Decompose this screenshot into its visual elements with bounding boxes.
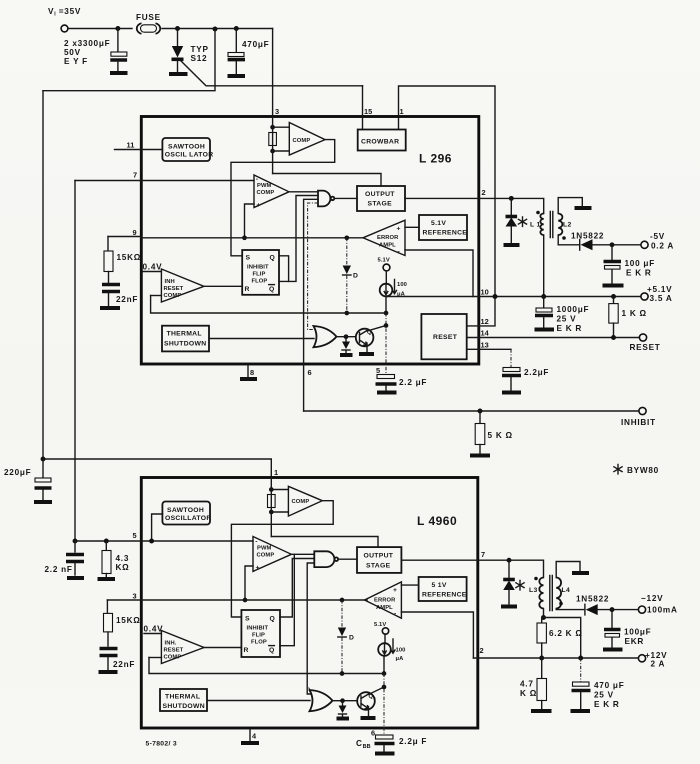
svg-text:COMP: COMP (292, 499, 310, 505)
node dot 100uF bottom (610, 607, 615, 612)
ground 4.7K (531, 709, 552, 713)
wire pin 7 to transformer (478, 560, 544, 577)
ground 22nF 4960 (99, 670, 118, 674)
node junction 470uF (234, 26, 239, 31)
ground for SCR (169, 72, 188, 76)
capacitor CB 2.2uF (376, 735, 394, 739)
node dot diode D top 4960 (340, 598, 345, 603)
wire L2 bottom to diode (558, 235, 579, 245)
svg-text:KΩ: KΩ (116, 563, 130, 572)
svg-text:S12: S12 (191, 54, 208, 63)
wire PWM plus stub to error line 4960 (245, 566, 253, 600)
node dot current source bottom 4960 (382, 671, 387, 676)
wire rail down to pin 3 (272, 29, 274, 117)
ground base diode 4960 (337, 717, 350, 721)
svg-text:BYW80: BYW80 (627, 466, 659, 475)
svg-text:3: 3 (275, 107, 279, 116)
node dot crowbar sense (493, 294, 498, 299)
svg-text:SAWTOOH: SAWTOOH (168, 144, 205, 151)
wire collector to CS line 4960 (369, 687, 385, 695)
phasing dot primary 2 (534, 577, 538, 581)
ground 2.2nF (67, 576, 84, 580)
svg-text:L 296: L 296 (419, 152, 452, 166)
thermal shutdown box 4960 (160, 689, 207, 711)
svg-text:SAWTOOH: SAWTOOH (167, 507, 204, 514)
node junction SCR (175, 26, 180, 31)
svg-text:SHUTDOWN: SHUTDOWN (163, 703, 205, 710)
svg-text:INHIBIT: INHIBIT (247, 265, 269, 271)
svg-text:OUTPUT: OUTPUT (364, 553, 394, 560)
svg-text:+: + (257, 202, 261, 209)
svg-text:Q: Q (270, 255, 276, 262)
wire pin 2 to transformer (479, 198, 544, 213)
resistor 15K ext (107, 237, 109, 252)
op-amp COMP (289, 123, 325, 156)
svg-text:FUSE: FUSE (136, 13, 161, 22)
node dot L3 bottom (541, 615, 546, 620)
inhibit flip flop box 4960 (241, 610, 280, 657)
asterisk mark 2 (516, 581, 524, 590)
svg-text:Q: Q (269, 286, 275, 293)
svg-text:L 1: L 1 (530, 222, 541, 229)
current source 100uA (385, 271, 387, 284)
svg-text:PWM: PWM (257, 183, 272, 189)
svg-text:Q: Q (269, 647, 275, 654)
svg-text:100 μF: 100 μF (625, 259, 655, 268)
svg-text:6.2 K Ω: 6.2 K Ω (549, 629, 583, 638)
svg-text:L 4960: L 4960 (417, 514, 457, 528)
wire feed left vertical to L4960 supply (43, 91, 271, 477)
wire pin 9 error amp line (108, 236, 141, 238)
wire input to fuse (68, 28, 132, 30)
svg-text:COMP: COMP (164, 293, 182, 299)
node dot collector 4960 (382, 685, 387, 690)
wire pin 13 (467, 348, 511, 350)
wire L2 top to ground (558, 198, 582, 214)
capacitor 470uF 25V EKR (580, 658, 582, 682)
svg-text:L4: L4 (562, 587, 571, 594)
wire pin3 to comp minus (273, 126, 290, 128)
wire INH comp lower input (151, 295, 162, 297)
5.1V reference box 4960 (419, 577, 467, 601)
transistor QF (357, 692, 375, 710)
svg-text:INHIBIT: INHIBIT (247, 626, 269, 632)
svg-text:AMPL: AMPL (379, 243, 396, 249)
ground base diode (340, 353, 353, 357)
svg-text:22nF: 22nF (116, 295, 138, 304)
wire thermal to OR gate 4960 (207, 700, 310, 702)
svg-text:+: + (393, 587, 397, 594)
current source 100uA 4960 (384, 634, 386, 644)
svg-text:RESET: RESET (630, 343, 661, 352)
svg-text:9: 9 (133, 228, 137, 237)
svg-text:100μF: 100μF (624, 628, 651, 637)
phasing dot secondary (562, 236, 566, 240)
capacitor 2.2nF (74, 541, 76, 552)
svg-text:470μF: 470μF (242, 40, 269, 49)
wire supply to output stage (273, 174, 381, 187)
ground freewheel diode 4960 (501, 605, 517, 609)
wire output stage to pin 2 (405, 197, 479, 199)
svg-text:STAGE: STAGE (366, 563, 391, 570)
output stage box (357, 186, 405, 211)
node dot pwm plus 4960 (243, 598, 248, 603)
node dot pin3 bottom (270, 149, 275, 154)
ground pin 4 (249, 728, 251, 741)
wire emitter to ground 4960 (368, 707, 370, 717)
resistor 1K (613, 297, 615, 304)
node junction input cap (115, 26, 120, 31)
svg-text:2.2μ F: 2.2μ F (399, 737, 427, 746)
ground L4 (572, 571, 589, 575)
OR gate (314, 326, 337, 347)
capacitor 2.2uF pin5 (377, 375, 395, 379)
svg-text:E K R: E K R (626, 269, 652, 278)
wire output stage to pin 7 (401, 559, 478, 561)
ground 100uF (603, 284, 624, 288)
NAND gate (318, 191, 330, 207)
svg-text:1: 1 (400, 107, 404, 116)
asterisk mark (518, 217, 526, 226)
node dot diode D top (344, 235, 349, 240)
wire L3 node to +12V line (544, 618, 581, 659)
resistor R osc 4960 (268, 495, 276, 508)
svg-text:μA: μA (396, 656, 405, 662)
output terminal -5V (641, 241, 648, 248)
svg-text:RESET: RESET (164, 648, 184, 654)
wire pin 15 up from IC (362, 86, 364, 117)
capacitor 22nF ext 4960 (107, 632, 109, 646)
op-amp PWM COMP 4960 (253, 537, 291, 572)
wire internal bottom line (151, 296, 386, 314)
svg-text:R: R (245, 286, 250, 293)
svg-text:15KΩ: 15KΩ (117, 253, 142, 262)
svg-text:5 K Ω: 5 K Ω (488, 431, 513, 440)
op-amp INH RESET COMP 4960 (161, 631, 204, 664)
ground 470uF (571, 709, 591, 713)
svg-text:11: 11 (127, 141, 135, 150)
svg-text:FLIP: FLIP (253, 272, 266, 278)
wire pin 14 reset line (467, 337, 639, 339)
wire pin3 to comp plus (273, 150, 290, 152)
svg-text:−12V: −12V (641, 594, 663, 603)
SCR gate wire to pin 15 line (181, 61, 363, 86)
node junction feed branch (213, 27, 218, 32)
svg-text:5.1V: 5.1V (378, 258, 390, 264)
wire error minus to pin 2 (401, 612, 473, 658)
wire comp output loop (231, 140, 335, 256)
svg-text:+: + (397, 226, 401, 233)
op-amp PWM COMP (254, 175, 289, 208)
svg-text:5: 5 (133, 531, 137, 540)
output terminal -12V (638, 606, 645, 613)
svg-text:COMP: COMP (164, 655, 182, 661)
svg-text:100mA: 100mA (647, 606, 678, 615)
op-amp INH RESET COMP (161, 269, 204, 302)
wire fuse to rail (162, 28, 273, 30)
wire NAND in4 dashdot to OR gate (308, 203, 318, 330)
RESET box (421, 314, 466, 359)
wire +12V line (473, 657, 638, 659)
svg-text:7: 7 (133, 171, 137, 180)
wire pin 10 +5.1V line (386, 296, 641, 298)
svg-text:FLOP: FLOP (252, 279, 268, 285)
op-amp ERROR AMPL (363, 220, 405, 255)
svg-text:+: + (256, 565, 260, 572)
svg-text:D: D (353, 273, 358, 280)
svg-text:RESET: RESET (433, 334, 458, 341)
svg-text:470 μF: 470 μF (594, 681, 624, 690)
node dot diode D bottom 4960 (340, 671, 345, 676)
node dot collector (384, 323, 389, 328)
svg-text:0.4V: 0.4V (143, 263, 163, 272)
wire FF Qbar up to gate input line (280, 554, 294, 645)
ground pin 8 (247, 364, 249, 377)
SECTION_MIDDLE (4, 364, 659, 502)
wire pin7 external vertical to 2.2nF node (74, 181, 76, 542)
node dot freewheel diode (509, 196, 514, 201)
capacitor 1000uF 25V EKR (543, 297, 545, 308)
phasing dot secondary 2 (559, 602, 563, 606)
svg-text:2 x3300μF: 2 x3300μF (64, 39, 110, 48)
node dot freewheel diode 4960 (507, 558, 512, 563)
IC L296 box (141, 117, 479, 365)
node dot 6.2K bottom (539, 656, 544, 661)
transformer core 2 (550, 576, 553, 611)
svg-text:THERMAL: THERMAL (165, 694, 200, 701)
crowbar box (358, 130, 406, 151)
svg-text:6: 6 (308, 368, 312, 377)
ground 22nF (100, 306, 120, 310)
svg-text:OSCIL LATOR: OSCIL LATOR (165, 152, 214, 159)
svg-text:CROWBAR: CROWBAR (361, 139, 399, 146)
svg-text:100: 100 (397, 282, 407, 288)
transformer core (550, 212, 553, 238)
wire collector to CS line (367, 326, 386, 332)
node dot 220uF (41, 457, 46, 462)
wire NAND in2 from FF Qbar (279, 196, 318, 282)
node dot 470uF (578, 656, 583, 661)
node dot base diode (344, 334, 349, 339)
svg-text:S: S (245, 616, 250, 623)
svg-text:L3: L3 (529, 587, 538, 594)
wire supply to output stage 4960 (271, 537, 378, 548)
ground for 2x3300uF (110, 71, 128, 75)
svg-text:ERROR: ERROR (377, 235, 399, 241)
freewheel diode BYW80 (510, 198, 512, 215)
wire comp output loop 4960 (231, 501, 333, 617)
svg-text:E Y F: E Y F (64, 57, 88, 66)
freewheel diode BYW80 2 (508, 560, 510, 578)
svg-text:INH.: INH. (165, 641, 177, 647)
svg-text:5: 5 (376, 366, 380, 375)
wire pin13 down to 2.2uF (510, 349, 512, 367)
svg-text:COMP: COMP (293, 138, 311, 144)
diode D internal (346, 238, 348, 265)
wire pin 5 line to PWM minus (75, 540, 253, 542)
BYW80 note (614, 465, 622, 474)
svg-text:100: 100 (396, 648, 406, 654)
svg-text:220μF: 220μF (4, 468, 31, 477)
capacitor 470uF (235, 29, 237, 53)
node dot pin1 bottom (269, 510, 274, 515)
svg-text:Q: Q (270, 616, 276, 623)
svg-text:25 V: 25 V (557, 315, 577, 324)
svg-text:6: 6 (371, 729, 375, 738)
wire L3 bottom node (543, 609, 545, 618)
wire pin6 to inhibit line (303, 364, 305, 411)
svg-text:22nF: 22nF (113, 660, 135, 669)
resistor 5K (479, 411, 481, 424)
wire pin 1 crowbar sense to +5.1V (399, 86, 496, 297)
node dot L1 junction (541, 294, 546, 299)
svg-text:2 A: 2 A (651, 660, 666, 669)
svg-text:2.2μF: 2.2μF (524, 368, 549, 377)
inhibit terminal (639, 407, 646, 414)
wire error minus to pin 10 (405, 250, 473, 297)
svg-text:1 K Ω: 1 K Ω (622, 309, 647, 318)
node dot pin1 top (269, 487, 274, 492)
svg-text:8: 8 (250, 368, 254, 377)
node dot pin3 top (270, 125, 275, 130)
svg-text:OUTPUT: OUTPUT (365, 191, 395, 198)
svg-text:2: 2 (480, 646, 484, 655)
svg-text:REFERENCE: REFERENCE (422, 592, 467, 599)
capacitor 100uF EKR (611, 245, 613, 260)
wire PWM plus stub down to error line (245, 204, 255, 238)
ground CB (375, 752, 395, 756)
svg-text:3: 3 (133, 592, 137, 601)
svg-text:EKR: EKR (625, 637, 645, 646)
svg-text:7: 7 (481, 550, 485, 559)
capacitor 22nF ext (108, 272, 110, 283)
svg-text:15: 15 (364, 107, 372, 116)
wire pin1 to comp plus (271, 511, 288, 513)
svg-text:E K R: E K R (557, 324, 583, 333)
svg-text:4.3: 4.3 (116, 554, 130, 563)
node dot pwm plus on error line (242, 235, 247, 240)
SECTION_L4960 (45, 468, 486, 754)
svg-text:PWM: PWM (257, 546, 272, 552)
reset terminal (639, 334, 646, 341)
wire L1 bottom to +5.1V line (543, 235, 545, 297)
node dot 5K (478, 409, 483, 414)
node dot 1K top (611, 294, 616, 299)
wire gate out to output stage 4960 (338, 558, 357, 560)
resistor 4.7K (541, 658, 543, 679)
thermal shutdown box (162, 326, 209, 352)
svg-text:RESET: RESET (164, 286, 184, 292)
SECTION_TOP (43, 7, 495, 477)
svg-text:FLIP: FLIP (252, 633, 265, 639)
svg-text:-: - (394, 611, 397, 618)
svg-text:2: 2 (482, 188, 486, 197)
ground for 470uF (228, 74, 246, 78)
SECTION_RIGHT4960 (473, 558, 677, 711)
svg-text:REFERENCE: REFERENCE (423, 230, 468, 237)
wire error plus to reference (405, 226, 419, 228)
capacitor 2.2uF pin13 (503, 368, 520, 372)
resistor 15K ext 4960 (106, 600, 108, 613)
svg-text:1N5822: 1N5822 (576, 595, 609, 604)
node dot 1K bottom on reset line (611, 335, 616, 340)
node dot 100uF (610, 242, 615, 247)
svg-text:ERROR: ERROR (374, 598, 396, 604)
svg-text:QF: QF (369, 694, 377, 701)
svg-text:INH: INH (165, 279, 175, 285)
ground L2 (575, 206, 592, 210)
5.1V reference box (419, 215, 467, 240)
svg-text:4.7: 4.7 (520, 680, 534, 689)
svg-text:R: R (244, 647, 249, 654)
svg-text:-: - (256, 176, 259, 183)
capacitor 2x3300uF (117, 29, 119, 52)
wire pin 3 error line (107, 599, 367, 601)
wire PWM out to NAND (289, 191, 318, 193)
svg-text:-5V: -5V (650, 232, 665, 241)
input terminal VI=35V (61, 25, 68, 32)
op-amp ERROR AMPL 4960 (365, 582, 402, 618)
svg-text:10: 10 (481, 288, 489, 297)
wire FF Q loop (279, 256, 289, 282)
svg-text:14: 14 (481, 329, 490, 338)
wire OR out to transistor base 4960 (333, 700, 358, 702)
ground 220uF (34, 500, 52, 504)
wire pin1 vertical (270, 478, 272, 537)
svg-text:K Ω: K Ω (520, 689, 537, 698)
svg-text:5 1V: 5 1V (432, 582, 447, 589)
svg-text:13: 13 (481, 341, 489, 350)
diode D internal 4960 (341, 600, 343, 627)
svg-text:12: 12 (481, 317, 489, 326)
wire emitter to ground (366, 343, 368, 352)
svg-text:+5.1V: +5.1V (647, 285, 672, 294)
inhibit flip flop box (242, 250, 279, 295)
output terminal +12V (638, 655, 645, 662)
ground 2.2uF pin5 (377, 391, 397, 395)
svg-text:3.5 A: 3.5 A (650, 294, 673, 303)
wire inhibit line (304, 410, 639, 412)
ground freewheel diode (504, 243, 520, 247)
svg-text:THERMAL: THERMAL (167, 331, 202, 338)
node dot base diode 4960 (340, 698, 345, 703)
svg-text:-: - (255, 539, 258, 546)
svg-text:15KΩ: 15KΩ (116, 616, 141, 625)
phasing dot primary (536, 211, 540, 215)
svg-text:5-7802/ 3: 5-7802/ 3 (146, 741, 177, 748)
svg-text:SHUTDOWN: SHUTDOWN (164, 341, 206, 348)
node dot 4.3K (104, 539, 109, 544)
node dot current source bottom (384, 311, 389, 316)
svg-text:TYP: TYP (191, 45, 209, 54)
wire gate in3 to OR gate 4960 (307, 563, 314, 694)
svg-text:50V: 50V (64, 48, 81, 57)
svg-text:25 V: 25 V (594, 691, 614, 700)
wire pin15 to crowbar (362, 117, 364, 130)
wire NAND in3 to pin 6 inhibit (304, 199, 318, 364)
ground 100uF bottom (603, 648, 623, 652)
svg-text:COMP: COMP (257, 553, 275, 559)
wire pin1 to comp minus (271, 489, 288, 491)
wire OR out to transistor base (337, 336, 356, 338)
wire FF Q up to gate in2 (280, 559, 314, 618)
svg-text:5.1V: 5.1V (374, 622, 386, 628)
svg-text:5.1V: 5.1V (431, 220, 446, 227)
svg-text:0.4V: 0.4V (144, 625, 164, 634)
ground emitter 4960 (361, 716, 376, 720)
node dot 2.2nF (73, 539, 78, 544)
svg-text:INHIBIT: INHIBIT (621, 418, 656, 427)
